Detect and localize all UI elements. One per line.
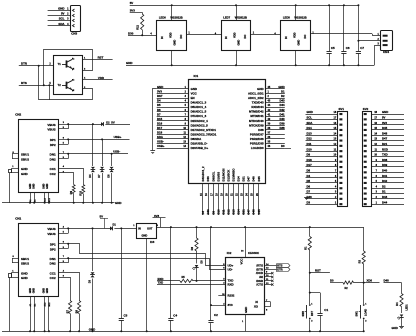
svg-text:R232: R232 — [228, 294, 235, 298]
svg-text:RTS: RTS — [277, 264, 282, 268]
svg-text:PSR3/D37: PSR3/D37 — [250, 132, 264, 136]
svg-text:XO: XO — [254, 305, 259, 309]
svg-text:1: 1 — [12, 166, 14, 168]
svg-text:D45: D45 — [382, 126, 388, 130]
svg-text:GND: GND — [244, 307, 248, 313]
svg-text:D2: D2 — [382, 184, 386, 188]
svg-text:B12: B12 — [49, 197, 51, 202]
svg-text:D16/ADC2_5: D16/ADC2_5 — [191, 123, 209, 127]
svg-text:ADC1_0/D1: ADC1_0/D1 — [248, 92, 264, 96]
svg-text:D12: D12 — [226, 209, 230, 215]
svg-text:D41: D41 — [279, 112, 285, 116]
svg-text:MTCK/D39: MTCK/D39 — [249, 123, 264, 127]
svg-text:18: 18 — [215, 193, 218, 196]
svg-text:CC2: CC2 — [50, 172, 56, 176]
svg-text:SDA: SDA — [307, 121, 313, 125]
svg-text:R9: R9 — [70, 190, 73, 194]
svg-text:D10: D10 — [307, 147, 313, 151]
svg-text:D38: D38 — [258, 128, 264, 132]
svg-text:D13: D13 — [232, 209, 236, 215]
svg-text:5: 5 — [49, 82, 51, 85]
svg-text:19: 19 — [220, 193, 223, 196]
svg-text:GND: GND — [115, 201, 121, 205]
svg-text:D9: D9 — [307, 153, 311, 157]
svg-text:D3: D3 — [201, 210, 205, 214]
svg-text:D13/MISO: D13/MISO — [232, 168, 236, 182]
svg-text:D48: D48 — [252, 209, 256, 215]
svg-text:IC3: IC3 — [150, 240, 155, 244]
svg-text:CC1: CC1 — [50, 271, 56, 275]
svg-text:RXD/D44: RXD/D44 — [251, 105, 264, 109]
svg-text:1: 1 — [335, 201, 337, 204]
svg-text:GND: GND — [191, 87, 197, 91]
svg-text:MTDI/D41: MTDI/D41 — [250, 114, 264, 118]
svg-text:1: 1 — [311, 303, 313, 305]
svg-text:WS2812B: WS2812B — [294, 16, 306, 20]
svg-text:D11: D11 — [307, 142, 312, 146]
svg-text:D4: D4 — [89, 174, 92, 178]
svg-text:D18/ADC2_7/RXD1: D18/ADC2_7/RXD1 — [191, 132, 217, 136]
svg-text:VDD: VDD — [98, 76, 104, 80]
svg-text:7: 7 — [376, 170, 378, 173]
svg-text:D40: D40 — [279, 117, 285, 121]
svg-text:18: 18 — [374, 111, 377, 114]
svg-text:6: 6 — [63, 137, 65, 139]
svg-text:C6: C6 — [346, 46, 350, 50]
svg-text:DI: DI — [284, 36, 288, 39]
svg-text:GND: GND — [126, 61, 132, 65]
svg-text:DN2: DN2 — [50, 157, 56, 161]
svg-text:17: 17 — [210, 193, 213, 196]
svg-text:C4: C4 — [173, 314, 177, 318]
svg-text:R1: R1 — [305, 246, 308, 250]
svg-text:RST: RST — [311, 311, 314, 316]
svg-text:GND: GND — [278, 85, 284, 89]
svg-text:D1: D1 — [281, 90, 285, 94]
svg-text:3: 3 — [84, 68, 86, 70]
svg-text:D14: D14 — [237, 209, 241, 215]
svg-text:GND: GND — [382, 110, 388, 114]
svg-text:3V3: 3V3 — [130, 8, 136, 12]
svg-text:D18: D18 — [157, 131, 163, 135]
svg-text:CH340C: CH340C — [248, 251, 260, 255]
svg-text:D6: D6 — [307, 184, 311, 188]
svg-text:D18: D18 — [307, 158, 313, 162]
svg-text:SBU2: SBU2 — [21, 157, 29, 161]
svg-text:R11: R11 — [136, 24, 140, 29]
svg-text:SBU1: SBU1 — [21, 153, 29, 157]
svg-text:D48: D48 — [382, 131, 388, 135]
svg-text:IN: IN — [138, 227, 141, 231]
svg-text:D5: D5 — [201, 260, 204, 264]
svg-text:C2: C2 — [214, 313, 218, 317]
svg-text:D3: D3 — [89, 279, 92, 283]
svg-text:D42: D42 — [279, 108, 285, 112]
svg-text:SBU1: SBU1 — [21, 257, 29, 261]
svg-text:DO: DO — [243, 35, 247, 39]
svg-text:D43: D43 — [382, 195, 388, 199]
svg-text:D6/ADC1_5: D6/ADC1_5 — [191, 110, 207, 114]
svg-text:DN2: DN2 — [50, 262, 56, 266]
svg-text:4: 4 — [335, 185, 337, 188]
svg-text:D9: D9 — [211, 210, 215, 214]
svg-text:3V3: 3V3 — [382, 121, 387, 125]
svg-text:D40: D40 — [382, 169, 388, 173]
svg-text:D45: D45 — [257, 176, 261, 182]
svg-text:SDA: SDA — [58, 22, 65, 26]
svg-text:GND: GND — [89, 327, 95, 331]
svg-text:RXD: RXD — [382, 147, 388, 151]
svg-text:CC2: CC2 — [50, 276, 56, 280]
svg-text:D9/SCL: D9/SCL — [211, 171, 215, 181]
svg-text:VBUS: VBUS — [47, 128, 55, 132]
svg-text:D39: D39 — [279, 121, 285, 125]
svg-text:VCC: VCC — [240, 259, 244, 265]
svg-text:GND: GND — [296, 40, 300, 46]
svg-text:9: 9 — [185, 122, 187, 125]
svg-text:14: 14 — [374, 132, 377, 135]
svg-text:D1: D1 — [113, 222, 117, 226]
svg-text:GND: GND — [307, 110, 313, 114]
svg-text:IC1: IC1 — [194, 74, 199, 78]
svg-text:DI: DI — [224, 36, 228, 39]
svg-text:2: 2 — [268, 95, 270, 98]
svg-text:R4: R4 — [396, 302, 399, 306]
svg-text:PSR1/D35: PSR1/D35 — [250, 142, 264, 146]
svg-text:MTDO/D40: MTDO/D40 — [249, 119, 264, 123]
svg-text:D44: D44 — [382, 200, 388, 204]
svg-text:D0: D0 — [330, 279, 334, 283]
svg-text:16: 16 — [205, 193, 208, 196]
svg-text:R5: R5 — [182, 276, 186, 279]
svg-text:18: 18 — [334, 111, 337, 114]
svg-text:UD-: UD- — [228, 267, 233, 271]
svg-text:TXD: TXD — [382, 153, 388, 157]
svg-text:D48: D48 — [252, 176, 256, 182]
svg-text:TXD/D43: TXD/D43 — [252, 101, 264, 105]
svg-text:D4: D4 — [307, 174, 311, 178]
svg-text:1: 1 — [312, 32, 314, 35]
svg-text:D44: D44 — [279, 103, 285, 107]
svg-text:E: E — [73, 69, 75, 71]
svg-text:C7: C7 — [360, 46, 364, 50]
svg-text:ADC1_2/D2: ADC1_2/D2 — [248, 96, 264, 100]
svg-text:3: 3 — [185, 95, 187, 98]
svg-text:1: 1 — [242, 321, 244, 323]
svg-text:GND: GND — [21, 276, 29, 280]
svg-text:RST: RST — [315, 269, 321, 273]
svg-text:5V: 5V — [111, 121, 115, 125]
svg-text:D10: D10 — [216, 209, 220, 215]
svg-text:R3: R3 — [358, 259, 361, 263]
svg-text:D4: D4 — [157, 99, 161, 103]
svg-text:1: 1 — [376, 201, 378, 204]
svg-text:D45: D45 — [257, 209, 261, 215]
svg-text:D21: D21 — [242, 209, 246, 215]
svg-text:D11: D11 — [221, 209, 225, 214]
svg-text:RXD: RXD — [228, 282, 234, 286]
svg-text:D15/ADC2_4: D15/ADC2_4 — [191, 119, 209, 123]
svg-text:D7: D7 — [157, 112, 161, 116]
svg-text:USB-: USB- — [157, 140, 164, 144]
svg-text:5V: 5V — [100, 214, 104, 218]
svg-text:D41: D41 — [382, 174, 388, 178]
svg-text:D4/ADC1_3: D4/ADC1_3 — [191, 101, 207, 105]
svg-text:11: 11 — [334, 148, 337, 151]
svg-text:USB+: USB+ — [157, 144, 165, 148]
svg-text:SV1: SV1 — [339, 107, 345, 111]
svg-text:D3/ADC1_2: D3/ADC1_2 — [201, 166, 205, 182]
svg-text:GND: GND — [58, 7, 64, 11]
svg-text:2: 2 — [185, 91, 187, 94]
svg-text:D8/SDA: D8/SDA — [191, 137, 203, 141]
svg-text:D47: D47 — [382, 137, 388, 141]
svg-text:DN1: DN1 — [50, 257, 56, 261]
svg-text:D2: D2 — [106, 120, 110, 124]
svg-text:37: 37 — [268, 132, 271, 135]
svg-text:D48: D48 — [384, 279, 390, 283]
svg-text:17: 17 — [334, 117, 337, 120]
svg-text:8: 8 — [13, 256, 15, 258]
svg-text:DI: DI — [160, 36, 164, 39]
svg-text:41: 41 — [268, 113, 271, 116]
svg-text:16: 16 — [241, 251, 244, 253]
svg-text:39: 39 — [268, 122, 271, 125]
svg-text:VDD: VDD — [233, 32, 237, 38]
svg-text:D19/USB_D-: D19/USB_D- — [191, 142, 208, 146]
svg-text:LOAD/D0: LOAD/D0 — [251, 146, 264, 150]
svg-text:SCL: SCL — [307, 116, 313, 120]
svg-text:5V: 5V — [382, 116, 386, 120]
svg-text:2: 2 — [63, 226, 65, 228]
svg-text:20: 20 — [225, 193, 228, 196]
svg-text:WS2812B: WS2812B — [170, 16, 182, 20]
svg-text:PSR2/D36: PSR2/D36 — [250, 137, 264, 141]
svg-text:XD6: XD6 — [367, 279, 373, 283]
svg-text:4: 4 — [63, 165, 65, 168]
svg-text:1: 1 — [133, 225, 135, 227]
svg-text:D2: D2 — [281, 94, 285, 98]
svg-text:9: 9 — [266, 271, 268, 273]
svg-text:22: 22 — [236, 193, 239, 196]
svg-text:D7/ADC1_6: D7/ADC1_6 — [191, 114, 207, 118]
svg-text:DTR: DTR — [21, 61, 28, 65]
svg-text:/CTS: /CTS — [256, 283, 263, 287]
svg-text:GND: GND — [142, 234, 148, 238]
svg-text:3V3: 3V3 — [157, 90, 162, 94]
svg-text:VBUS: VBUS — [47, 227, 55, 231]
svg-text:T2: T2 — [58, 83, 62, 87]
svg-text:GND: GND — [21, 167, 29, 171]
svg-text:R10: R10 — [79, 190, 82, 195]
svg-text:D14: D14 — [307, 126, 313, 130]
svg-text:SDA: SDA — [157, 135, 163, 139]
svg-text:D20/USB_D+: D20/USB_D+ — [191, 146, 209, 150]
svg-text:E: E — [73, 90, 75, 92]
svg-text:DO: DO — [303, 35, 307, 39]
svg-text:CN1: CN1 — [15, 217, 21, 221]
svg-text:RST: RST — [157, 94, 163, 98]
svg-text:VDD: VDD — [168, 32, 172, 38]
svg-text:SW2: SW2 — [302, 310, 305, 316]
svg-text:GND: GND — [21, 172, 29, 176]
svg-text:LED6: LED6 — [159, 16, 166, 20]
svg-text:DP2: DP2 — [50, 247, 56, 251]
svg-text:D47: D47 — [247, 209, 251, 215]
svg-text:D7: D7 — [307, 190, 311, 194]
svg-text:C3: C3 — [124, 314, 128, 318]
svg-text:D13: D13 — [307, 131, 313, 135]
svg-text:D21: D21 — [382, 142, 388, 146]
svg-text:7: 7 — [185, 113, 187, 116]
svg-text:EN: EN — [191, 96, 195, 100]
svg-text:DP2: DP2 — [50, 143, 56, 147]
svg-text:D8: D8 — [307, 169, 311, 173]
svg-text:CN3: CN3 — [71, 32, 77, 36]
svg-text:4: 4 — [63, 270, 65, 273]
svg-text:GND: GND — [172, 40, 176, 46]
svg-text:11: 11 — [374, 148, 377, 151]
svg-text:GND: GND — [46, 183, 49, 189]
svg-text:GND: GND — [237, 40, 241, 46]
svg-text:SV2: SV2 — [363, 107, 369, 111]
svg-text:C: C — [73, 58, 75, 60]
svg-text:3: 3 — [365, 321, 367, 323]
svg-text:R7: R7 — [66, 309, 69, 313]
svg-text:DP1: DP1 — [50, 138, 56, 142]
svg-text:D5: D5 — [157, 103, 161, 107]
svg-text:11: 11 — [183, 132, 186, 135]
svg-text:CN4: CN4 — [383, 50, 389, 54]
svg-text:VBUS: VBUS — [47, 123, 55, 127]
svg-text:IC2: IC2 — [227, 251, 232, 255]
svg-text:14: 14 — [183, 145, 186, 148]
svg-text:D10/SS: D10/SS — [216, 172, 220, 182]
svg-text:D8: D8 — [108, 174, 111, 178]
svg-text:D38: D38 — [279, 126, 285, 130]
svg-text:GND: GND — [21, 271, 29, 275]
svg-text:3: 3 — [378, 43, 380, 45]
svg-text:8: 8 — [266, 310, 268, 312]
svg-text:VCC: VCC — [191, 92, 198, 96]
svg-text:5: 5 — [185, 104, 187, 107]
svg-text:R2: R2 — [345, 287, 349, 290]
svg-text:D17: D17 — [307, 163, 313, 167]
svg-text:C: C — [73, 80, 75, 82]
svg-text:1: 1 — [188, 32, 190, 35]
svg-text:D46: D46 — [206, 209, 210, 215]
svg-text:GND: GND — [157, 85, 163, 89]
svg-text:C5: C5 — [331, 46, 335, 50]
svg-text:3V3: 3V3 — [228, 303, 234, 307]
svg-text:DP1: DP1 — [50, 243, 56, 247]
svg-text:DO: DO — [179, 35, 183, 39]
svg-text:14: 14 — [334, 132, 337, 135]
svg-text:D15: D15 — [157, 117, 163, 121]
svg-text:C1: C1 — [324, 308, 328, 312]
svg-text:MTMS/D42: MTMS/D42 — [249, 110, 264, 114]
svg-text:USB+: USB+ — [114, 135, 122, 139]
svg-text:D1: D1 — [382, 190, 386, 194]
svg-text:DTR: DTR — [277, 268, 282, 272]
svg-text:RST: RST — [98, 56, 104, 60]
svg-text:USB-: USB- — [113, 150, 120, 154]
svg-text:CC1: CC1 — [50, 167, 56, 171]
svg-text:LED1: LED1 — [406, 304, 409, 311]
svg-text:1: 1 — [365, 303, 367, 305]
svg-text:46: 46 — [268, 145, 271, 148]
svg-text:OUT: OUT — [147, 227, 153, 231]
svg-text:D30: D30 — [128, 31, 134, 35]
svg-text:SW1: SW1 — [356, 310, 359, 316]
svg-text:D38: D38 — [382, 158, 388, 162]
svg-text:D12/SCK: D12/SCK — [226, 170, 230, 182]
svg-text:D39: D39 — [382, 163, 388, 167]
svg-text:D5: D5 — [307, 179, 311, 183]
svg-text:4: 4 — [150, 32, 152, 35]
svg-text:D17: D17 — [157, 126, 163, 130]
svg-text:D46: D46 — [206, 176, 210, 182]
svg-text:VBUS: VBUS — [47, 232, 55, 236]
svg-text:GND: GND — [257, 87, 263, 91]
svg-text:LED8: LED8 — [283, 16, 290, 20]
svg-text:5V: 5V — [61, 12, 65, 16]
svg-text:GND: GND — [33, 288, 36, 294]
svg-text:VDD: VDD — [292, 32, 296, 38]
svg-text:D43: D43 — [279, 99, 285, 103]
svg-text:1: 1 — [253, 32, 255, 35]
svg-text:R8: R8 — [75, 309, 78, 313]
svg-text:7: 7 — [335, 170, 337, 173]
svg-text:3: 3 — [311, 321, 313, 323]
svg-text:RTS: RTS — [21, 81, 27, 85]
svg-text:17: 17 — [374, 117, 377, 120]
svg-text:TXD: TXD — [158, 280, 164, 284]
svg-text:SBU2: SBU2 — [21, 262, 29, 266]
svg-text:D3: D3 — [307, 200, 311, 204]
svg-text:D12: D12 — [307, 137, 313, 141]
svg-text:44: 44 — [268, 104, 271, 107]
svg-text:D5/ADC1_4: D5/ADC1_4 — [191, 105, 207, 109]
svg-text:D16: D16 — [157, 121, 163, 125]
svg-text:5V: 5V — [130, 1, 134, 5]
svg-text:SCL: SCL — [59, 17, 65, 21]
svg-text:1: 1 — [268, 91, 270, 94]
svg-text:T1: T1 — [58, 62, 62, 66]
svg-text:DN1: DN1 — [50, 153, 56, 157]
svg-text:D6: D6 — [157, 108, 161, 112]
svg-text:D14: D14 — [237, 176, 241, 182]
svg-text:D47: D47 — [247, 176, 251, 182]
svg-text:GND: GND — [46, 288, 49, 294]
svg-text:D7: D7 — [98, 174, 101, 178]
svg-text:D42: D42 — [382, 179, 388, 183]
svg-text:GND: GND — [33, 183, 36, 189]
svg-text:CN2: CN2 — [15, 112, 21, 116]
svg-text:GND: GND — [392, 326, 398, 330]
svg-text:4: 4 — [376, 185, 378, 188]
svg-text:B12: B12 — [49, 302, 51, 307]
svg-text:D0: D0 — [281, 144, 285, 148]
svg-text:21: 21 — [231, 193, 234, 196]
svg-text:2: 2 — [63, 122, 65, 124]
svg-text:LED7: LED7 — [223, 16, 230, 20]
svg-text:D11/MOSI: D11/MOSI — [221, 168, 225, 181]
svg-text:3: 3 — [157, 225, 159, 227]
svg-text:R6: R6 — [191, 246, 194, 250]
svg-text:7: 7 — [63, 256, 65, 258]
svg-text:1: 1 — [84, 57, 86, 59]
